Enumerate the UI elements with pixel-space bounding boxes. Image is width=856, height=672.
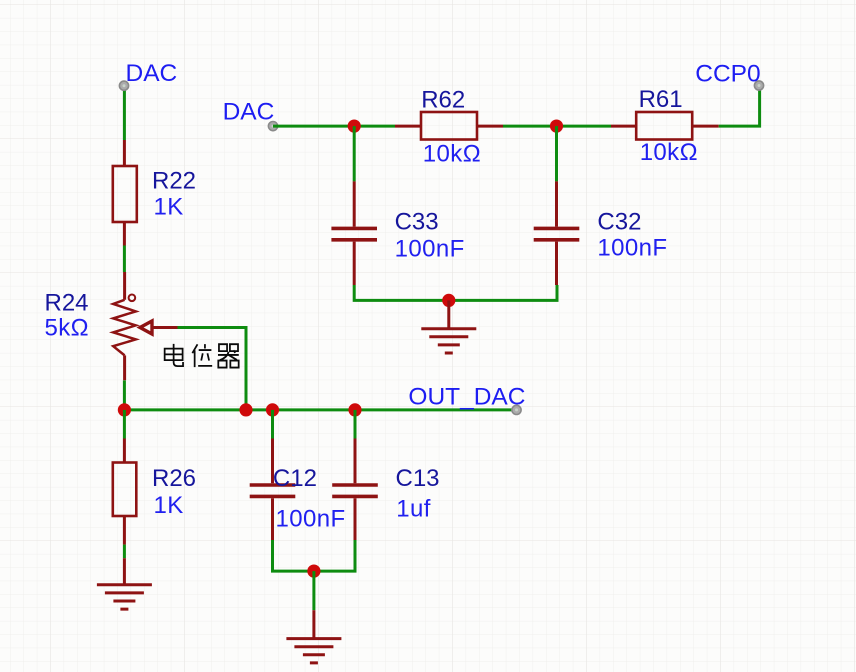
label C33 (395, 208, 439, 235)
wire R61 to CCP0 (719, 90, 760, 126)
node OUT_DAC pin (512, 405, 521, 414)
label C13 (396, 465, 440, 492)
resistor R61 (611, 112, 719, 140)
svg-text:100nF: 100nF (276, 506, 346, 533)
wire junction to ground (312, 571, 315, 610)
value 1uf (396, 496, 431, 523)
ground under R26 (97, 558, 152, 609)
label 电位器 (165, 344, 239, 368)
value 5kΩ (45, 315, 90, 342)
svg-text:100nF: 100nF (395, 236, 465, 263)
wire C33 C32 bottom (354, 285, 557, 300)
node DAC mid pin (268, 122, 277, 131)
capacitor C12 (250, 410, 296, 540)
svg-text:10kΩ: 10kΩ (423, 140, 481, 167)
label R22 (152, 168, 196, 195)
net label DAC left (126, 60, 178, 87)
capacitor C13 (332, 410, 378, 540)
net label OUT_DAC (408, 384, 525, 411)
wire R22 to R24 (123, 246, 126, 273)
junction middle ground (442, 294, 455, 307)
junction DAC node (348, 120, 361, 133)
svg-text:OUT_DAC: OUT_DAC (408, 384, 525, 411)
svg-text:C33: C33 (395, 208, 439, 235)
svg-text:R61: R61 (639, 86, 683, 113)
junction R62 R61 node (550, 120, 563, 133)
capacitor C32 (534, 126, 580, 285)
svg-text:5kΩ: 5kΩ (45, 315, 90, 342)
junction wiper (239, 403, 252, 416)
svg-text:DAC: DAC (223, 98, 275, 125)
resistor R62 (395, 112, 503, 140)
svg-text:C12: C12 (273, 465, 317, 492)
wire OUT_DAC horizontal (124, 408, 516, 411)
svg-text:R24: R24 (45, 290, 89, 317)
value 100nF C33 (395, 236, 465, 263)
resistor R26 (113, 410, 137, 545)
junction bottom ground (307, 565, 320, 578)
wire R24 bottom (123, 380, 126, 410)
svg-text:1K: 1K (154, 492, 184, 519)
svg-text:100nF: 100nF (597, 235, 667, 262)
junction C12 (266, 403, 279, 416)
value 100nF C32 (597, 235, 667, 262)
svg-text:10kΩ: 10kΩ (640, 139, 698, 166)
svg-text:1uf: 1uf (396, 496, 431, 523)
svg-text:1K: 1K (154, 194, 184, 221)
net label CCP0 (695, 61, 760, 88)
ground bottom (286, 610, 341, 663)
label R24 (45, 290, 89, 317)
svg-text:C32: C32 (597, 208, 641, 235)
label R61 (639, 86, 683, 113)
wire net DAC left vertical (123, 88, 126, 140)
value 10kΩ R61 (640, 139, 698, 166)
label R26 (152, 465, 196, 492)
value 1K (154, 492, 184, 519)
ground middle (421, 300, 476, 353)
node CCP0 pin (754, 81, 763, 90)
wire DAC to R62 (273, 125, 395, 128)
value 10kΩ R62 (423, 140, 481, 167)
svg-text:CCP0: CCP0 (695, 61, 760, 88)
capacitor C33 (331, 126, 377, 285)
svg-text:R22: R22 (152, 168, 196, 195)
label C32 (597, 208, 641, 235)
node DAC left pin (119, 81, 128, 90)
svg-text:DAC: DAC (126, 60, 178, 87)
label C12 (273, 465, 317, 492)
resistor R22 (113, 140, 137, 246)
net label DAC mid (223, 98, 275, 125)
wire R62 to R61 (503, 125, 611, 128)
svg-text:R62: R62 (421, 87, 465, 114)
wire R26 to ground (123, 545, 126, 559)
svg-text:C13: C13 (396, 465, 440, 492)
wire C12 C13 bottom (273, 540, 356, 571)
svg-text:R26: R26 (152, 465, 196, 492)
junction at R24 bottom (118, 403, 131, 416)
wire wiper to bottom node (178, 328, 247, 410)
value 1K (154, 194, 184, 221)
label R62 (421, 87, 465, 114)
junction C13 (348, 403, 361, 416)
potentiometer R24 (113, 272, 177, 380)
value 100nF C12 (276, 506, 346, 533)
